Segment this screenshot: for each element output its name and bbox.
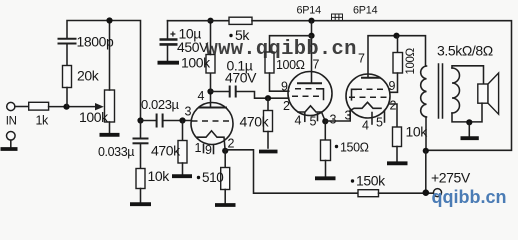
svg-text:150k: 150k [356,173,386,189]
svg-text:2: 2 [390,99,397,113]
svg-text:1800p: 1800p [77,34,115,50]
resistor 20k [63,66,72,88]
wire top compensation line [67,21,141,121]
svg-text:3.5kΩ/8Ω: 3.5kΩ/8Ω [437,43,493,59]
svg-text:7: 7 [358,52,365,66]
wire terminal to ground [10,140,12,147]
svg-text:9: 9 [205,143,212,157]
node pot-top on compensation line [106,17,112,23]
wire to ground [468,122,470,136]
svg-text:6P14: 6P14 [353,5,378,17]
wire secondary bottom [452,113,469,122]
pentode tube2 6P14 envelope [346,74,390,118]
svg-text:qqibb.cn: qqibb.cn [432,187,507,207]
tube2 heater pins [371,113,373,125]
wire tube2 grid to 10k [390,104,397,127]
triode V1 grid dashes [192,120,232,122]
resistor 10k grid tube2 [393,127,402,147]
svg-text:470k: 470k [240,114,270,130]
wire pot top to feedback line [109,122,111,133]
node tube1 plate on rail [308,18,314,24]
node 100k on rail [207,18,213,24]
svg-text:10k: 10k [406,124,429,140]
node screen feed tube2 [393,33,399,39]
resistor 510 cathode [224,151,226,168]
node V1 plate [207,88,213,94]
node +275V [423,189,430,196]
svg-text:150Ω: 150Ω [340,141,369,155]
svg-text:2: 2 [283,99,290,113]
wire rail to plate node [311,21,313,36]
wire 1k to pot with arrow [49,106,95,108]
resistor 100k plate load [210,73,212,92]
svg-text:IN: IN [6,116,17,128]
ground below 10k [130,202,151,206]
triode V1 cathode [198,131,226,151]
wire 10u to ground [167,44,169,61]
wire screen feed tube1 [270,36,312,52]
resistor 150k feedback [358,190,379,197]
wire primary bottom down [425,117,427,151]
ground below 510 [215,203,236,207]
tube1 grid row2 [292,95,322,97]
transformer secondary winding [452,68,460,113]
svg-text:1: 1 [195,141,202,155]
resistor 470k grid leak V1 [178,141,187,164]
triode V1 plate [210,92,212,108]
node B+ transformer bottom [423,148,429,154]
ground below speaker [461,136,479,140]
ground below 150R [315,176,336,180]
wire B+ down to 275V node [425,151,427,193]
svg-text:20k: 20k [77,68,100,84]
svg-text:2: 2 [228,137,235,151]
potentiometer 100k [105,90,115,122]
node V1 cathode [222,148,228,154]
svg-text:510: 510 [202,170,223,185]
ground below 470k [172,174,192,178]
svg-text:6P14: 6P14 [297,5,322,17]
wire plate lead tube1 [311,36,313,83]
svg-text:+275V: +275V [431,170,471,186]
capacitor 0.1u coupling [211,91,230,93]
heater symbol on rail [332,14,343,21]
lower input terminal [7,132,16,141]
capacitor 10u 450V electrolytic [167,21,169,39]
tube1 heater pins [304,113,306,122]
wire grid node to 470k [182,121,184,141]
node input of coupling caps [137,117,143,123]
wire 10k to ground [140,189,142,203]
wire 470k to ground [182,163,184,175]
resistor 470k grid leak 6P14 [267,98,269,110]
ground below 470k [259,150,278,154]
input terminal IN [7,102,15,110]
wire secondary top to speaker [452,66,484,84]
node 6P14 grids [265,95,271,101]
svg-text:470V: 470V [225,70,257,86]
wire tube2 plate to transformer [368,36,426,78]
wire pot top up [109,21,111,91]
resistor 1k [29,102,49,110]
transformer core [439,64,443,118]
svg-text:5: 5 [376,116,383,130]
pentode tube1 6P14 envelope [288,72,332,116]
svg-text:3: 3 [330,113,337,127]
tube2 plate bar [361,77,381,79]
wire IN to R 1k [15,106,29,108]
svg-text:3: 3 [345,109,352,123]
resistor 10k [136,169,145,189]
wire 510 to ground [224,190,226,204]
svg-text:100Ω: 100Ω [405,48,417,75]
wire V1 cathode to bottom feedback rail [225,150,358,193]
wire 1800p to 20k [66,44,68,66]
svg-text:450V: 450V [177,39,209,55]
svg-text:9: 9 [281,80,288,94]
node cathode bus [322,118,328,124]
ground below 10u [158,61,180,65]
resistor 100R screen tube1 [265,52,274,73]
svg-text:www.qqibb.cn: www.qqibb.cn [206,38,357,61]
svg-text:4: 4 [295,114,302,128]
ground below lower terminal [1,147,18,151]
speaker [478,84,488,103]
tube1 cathode [298,106,325,122]
tube2 grid row2 [349,96,387,98]
svg-text:4: 4 [362,119,369,133]
resistor 5k [229,17,252,24]
wire cathode bus to tube2 [325,110,350,121]
svg-text:5: 5 [310,115,317,129]
ground below pot [100,133,120,137]
svg-text:100k: 100k [79,109,109,125]
svg-text:10k: 10k [148,168,171,184]
node A junction after 1k [63,104,69,110]
node V1 grid [179,117,185,123]
triode V1 heater pins [203,145,205,153]
svg-text:0.023µ: 0.023µ [141,97,180,112]
svg-text:470k: 470k [151,143,181,159]
wire B+ rail [168,20,230,22]
node tube1 plate/screen [308,33,314,39]
tube2 grid row1 with hook [356,88,385,90]
capacitor 1800p [58,38,77,40]
transformer primary winding [421,66,427,117]
svg-text:1k: 1k [36,114,50,128]
wire rail 5k to right edge [252,21,512,151]
wire 150k to 275V node [379,192,434,194]
capacitor 0.033u [140,121,142,138]
svg-text:4: 4 [198,89,205,103]
terminal +275V [434,189,442,197]
svg-text:3: 3 [185,105,192,119]
svg-text:0.033µ: 0.033µ [98,145,134,159]
capacitor 0.023u [141,120,156,122]
svg-text:9: 9 [389,79,396,93]
ground below 10k [387,161,408,165]
triode V1 envelope [191,103,233,145]
wire speaker bottom [469,103,482,122]
resistor 150R cathode [324,121,326,140]
wire 0.033u to 10k [140,144,142,169]
tube1 plate bar [297,82,322,84]
tube2 cathode [350,102,381,110]
resistor 100R screen tube2 [397,36,399,53]
wire 20k to node A [66,88,68,107]
tube1 grid row1 with hook [295,88,318,90]
node speaker ground [466,119,472,125]
